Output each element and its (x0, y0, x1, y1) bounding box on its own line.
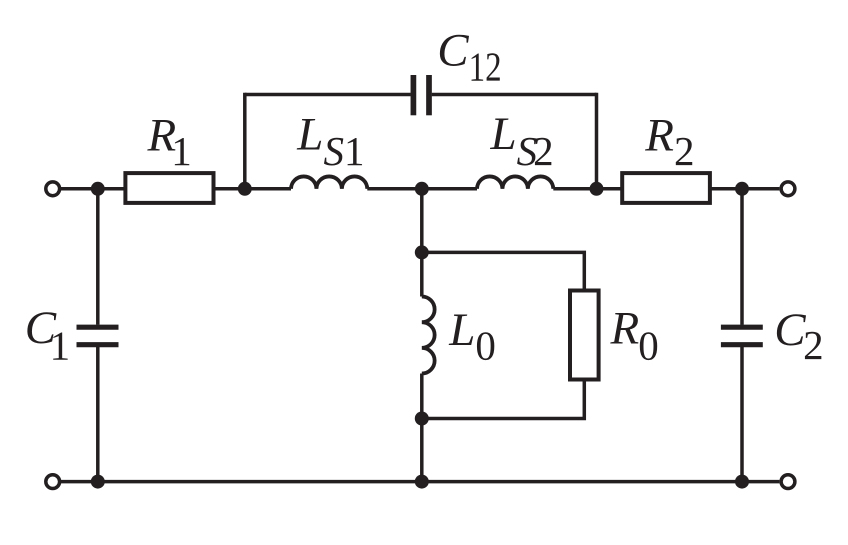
svg-text:C2: C2 (774, 304, 823, 368)
svg-text:L0: L0 (448, 304, 496, 368)
svg-text:R0: R0 (610, 302, 659, 368)
svg-text:C12: C12 (437, 25, 501, 90)
svg-text:C1: C1 (25, 302, 70, 368)
svg-text:LS1: LS1 (296, 109, 364, 174)
svg-text:LS2: LS2 (490, 108, 554, 174)
svg-text:R1: R1 (147, 110, 192, 174)
svg-text:R2: R2 (644, 110, 694, 174)
